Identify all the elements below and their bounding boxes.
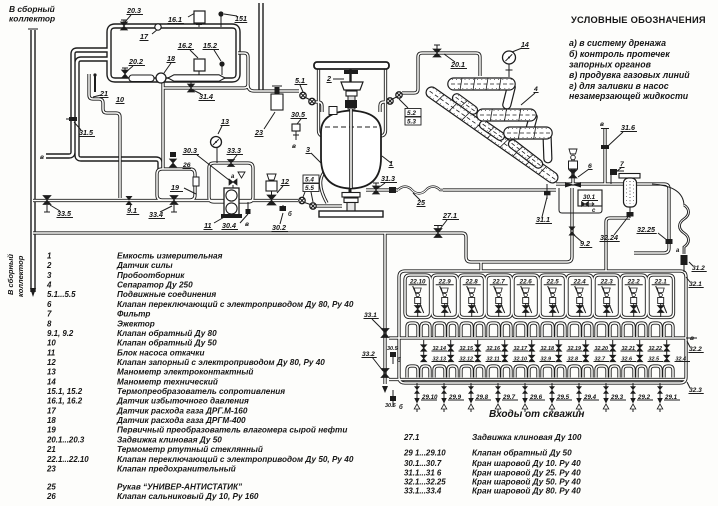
svg-text:в: в — [40, 154, 44, 161]
svg-text:30.2: 30.2 — [272, 223, 286, 232]
svg-text:29.7: 29.7 — [502, 394, 516, 401]
svg-text:5.1...5.5: 5.1...5.5 — [47, 290, 76, 299]
svg-text:16.1: 16.1 — [168, 15, 182, 24]
svg-text:32.25: 32.25 — [637, 225, 656, 234]
svg-text:32.17: 32.17 — [514, 346, 528, 352]
svg-text:32.6: 32.6 — [622, 357, 633, 363]
svg-text:30.6: 30.6 — [385, 403, 397, 409]
svg-text:32.12: 32.12 — [460, 357, 474, 363]
svg-text:12: 12 — [47, 358, 56, 367]
svg-text:30.5: 30.5 — [291, 110, 306, 119]
svg-text:32.20: 32.20 — [595, 346, 609, 352]
svg-text:Клапан запорный с электроприво: Клапан запорный с электроприводом Ду 80,… — [117, 358, 325, 367]
svg-text:б: б — [399, 404, 403, 411]
svg-text:Сепаратор Ду 250: Сепаратор Ду 250 — [117, 281, 193, 290]
svg-text:29.10: 29.10 — [421, 394, 438, 401]
svg-text:Кран шаровой Ду 50. Ру 40: Кран шаровой Ду 50. Ру 40 — [472, 478, 581, 487]
svg-text:23: 23 — [254, 128, 263, 137]
svg-text:30.5: 30.5 — [387, 346, 399, 352]
svg-text:4: 4 — [46, 281, 52, 290]
svg-text:31.1: 31.1 — [536, 215, 550, 224]
svg-text:Клапан переключающий с электро: Клапан переключающий с электроприводом Д… — [117, 300, 354, 309]
svg-text:18: 18 — [167, 54, 175, 63]
svg-text:12: 12 — [281, 177, 289, 186]
svg-text:5.1: 5.1 — [295, 76, 305, 85]
svg-text:в: в — [245, 221, 249, 228]
svg-text:Датчик избыточного давления: Датчик избыточного давления — [116, 396, 249, 406]
svg-text:27.1: 27.1 — [442, 211, 457, 220]
svg-text:15.1, 15.2: 15.1, 15.2 — [47, 387, 83, 396]
svg-text:коллектор: коллектор — [9, 14, 55, 24]
svg-text:16.1, 16.2: 16.1, 16.2 — [47, 397, 83, 406]
svg-text:25: 25 — [46, 483, 56, 492]
svg-text:13: 13 — [221, 117, 229, 126]
svg-text:1: 1 — [47, 252, 51, 261]
svg-text:5.3: 5.3 — [407, 119, 416, 126]
svg-text:33.4: 33.4 — [149, 210, 163, 219]
svg-text:29.4: 29.4 — [583, 394, 597, 401]
svg-text:32.18: 32.18 — [541, 346, 555, 352]
svg-text:22.4: 22.4 — [573, 279, 587, 286]
svg-text:Клапан предохранительный: Клапан предохранительный — [117, 464, 236, 473]
svg-text:14: 14 — [521, 42, 529, 49]
svg-text:7: 7 — [47, 310, 52, 319]
svg-text:Первичный преобразователь влаг: Первичный преобразователь влагомера сыро… — [117, 425, 347, 435]
svg-text:26: 26 — [182, 162, 191, 169]
svg-text:9.1, 9.2: 9.1, 9.2 — [47, 329, 74, 338]
svg-text:Задвижка клиновая Ду 100: Задвижка клиновая Ду 100 — [472, 433, 582, 442]
svg-text:32.4: 32.4 — [676, 357, 687, 363]
svg-text:31.4: 31.4 — [199, 92, 213, 101]
svg-text:6: 6 — [47, 300, 52, 309]
svg-text:Термопреобразователь сопротивл: Термопреобразователь сопротивления — [117, 386, 285, 396]
svg-text:22.8: 22.8 — [465, 279, 479, 286]
svg-text:4: 4 — [533, 86, 538, 93]
svg-text:21: 21 — [99, 89, 108, 98]
svg-text:29.9: 29.9 — [448, 394, 462, 401]
svg-text:3: 3 — [47, 271, 52, 280]
svg-text:17: 17 — [47, 406, 56, 415]
svg-text:В сборный: В сборный — [9, 4, 55, 14]
svg-text:27.1: 27.1 — [403, 433, 419, 442]
svg-text:В сборный: В сборный — [6, 254, 15, 295]
svg-text:5.4: 5.4 — [305, 177, 314, 184]
svg-text:32.21: 32.21 — [622, 346, 636, 352]
svg-text:32.3: 32.3 — [689, 387, 702, 394]
svg-text:22.1...22.10: 22.1...22.10 — [46, 455, 89, 464]
svg-text:20.3: 20.3 — [126, 6, 141, 15]
svg-text:32.10: 32.10 — [514, 357, 528, 363]
svg-text:32.1...32.25: 32.1...32.25 — [404, 478, 446, 487]
svg-text:11: 11 — [204, 221, 211, 230]
svg-text:Клапан сальниковый Ду 10, Ру 1: Клапан сальниковый Ду 10, Ру 160 — [117, 492, 259, 501]
svg-text:32.15: 32.15 — [460, 346, 474, 352]
svg-text:Задвижка клиновая Ду 50: Задвижка клиновая Ду 50 — [117, 435, 222, 444]
svg-text:14: 14 — [47, 377, 56, 386]
svg-text:32.9: 32.9 — [541, 357, 552, 363]
svg-text:32.1: 32.1 — [689, 281, 702, 288]
svg-text:22.3: 22.3 — [600, 279, 614, 286]
svg-text:32.16: 32.16 — [487, 346, 501, 352]
svg-text:УСЛОВНЫЕ ОБОЗНАЧЕНИЯ: УСЛОВНЫЕ ОБОЗНАЧЕНИЯ — [571, 15, 706, 25]
svg-text:Подвижные соединения: Подвижные соединения — [117, 290, 216, 299]
svg-text:Пробоотборник: Пробоотборник — [117, 270, 185, 280]
svg-text:Клапан обратный Ду 80: Клапан обратный Ду 80 — [117, 328, 217, 338]
svg-text:Кран шаровой Ду 80. Ру 40: Кран шаровой Ду 80. Ру 40 — [472, 487, 581, 496]
svg-text:151: 151 — [235, 14, 247, 23]
svg-text:Клапан обратный Ду 50: Клапан обратный Ду 50 — [117, 338, 217, 348]
svg-text:31.2: 31.2 — [692, 265, 705, 272]
svg-text:3: 3 — [306, 145, 310, 154]
svg-text:10: 10 — [47, 339, 56, 348]
svg-text:23: 23 — [46, 464, 56, 473]
svg-text:20.2: 20.2 — [128, 57, 143, 66]
svg-text:32.22: 32.22 — [649, 346, 663, 352]
svg-text:Термометр ртутный стеклянный: Термометр ртутный стеклянный — [117, 445, 263, 454]
svg-text:22.2: 22.2 — [627, 279, 641, 286]
svg-text:31.5: 31.5 — [79, 128, 94, 137]
svg-text:33.1: 33.1 — [364, 312, 377, 319]
svg-text:11: 11 — [47, 348, 55, 357]
svg-text:Кран шаровой Ду 10. Ру 40: Кран шаровой Ду 10. Ру 40 — [472, 459, 581, 468]
svg-text:32.13: 32.13 — [433, 357, 447, 363]
svg-text:Рукав “УНИВЕР-АНТИСТАТИК”: Рукав “УНИВЕР-АНТИСТАТИК” — [117, 483, 243, 492]
svg-text:29.8: 29.8 — [475, 394, 489, 401]
svg-text:31.6: 31.6 — [621, 123, 636, 132]
svg-text:30.1: 30.1 — [583, 194, 596, 201]
svg-text:32.14: 32.14 — [433, 346, 447, 352]
svg-text:22.7: 22.7 — [492, 279, 506, 286]
svg-text:Манометр электроконтактный: Манометр электроконтактный — [117, 368, 253, 377]
svg-text:Клапан переключающий с электро: Клапан переключающий с электроприводом Д… — [117, 455, 354, 464]
svg-text:г) для заливки в насос: г) для заливки в насос — [569, 81, 669, 91]
svg-text:в: в — [690, 335, 694, 342]
svg-text:б: б — [288, 211, 292, 218]
svg-text:19: 19 — [47, 426, 56, 435]
svg-text:Датчик силы: Датчик силы — [116, 261, 173, 270]
svg-text:5.5: 5.5 — [305, 185, 314, 192]
svg-text:б) контроль протечек: б) контроль протечек — [569, 49, 670, 59]
svg-text:29.3: 29.3 — [610, 394, 624, 401]
svg-text:33.2: 33.2 — [362, 351, 375, 358]
svg-text:б: б — [397, 357, 401, 364]
svg-text:15.2: 15.2 — [203, 41, 217, 50]
svg-text:Эжектор: Эжектор — [117, 319, 155, 328]
svg-text:29.5: 29.5 — [556, 394, 570, 401]
svg-text:22.9: 22.9 — [438, 279, 452, 286]
svg-text:коллектор: коллектор — [16, 255, 25, 297]
svg-text:а) в систему дренажа: а) в систему дренажа — [569, 38, 666, 48]
svg-text:20.1...20.3: 20.1...20.3 — [46, 435, 85, 444]
svg-text:22.10: 22.10 — [409, 279, 426, 286]
svg-text:Фильтр: Фильтр — [117, 310, 150, 319]
svg-text:в: в — [600, 121, 604, 128]
svg-text:1: 1 — [389, 159, 393, 168]
svg-text:22.1: 22.1 — [654, 279, 668, 286]
svg-text:Кран шаровой Ду 25. Ру 40: Кран шаровой Ду 25. Ру 40 — [472, 469, 581, 478]
svg-text:19: 19 — [171, 183, 179, 192]
svg-text:в: в — [292, 143, 296, 150]
svg-text:33.1...33.4: 33.1...33.4 — [404, 487, 442, 496]
svg-text:9.2: 9.2 — [580, 239, 590, 248]
svg-text:Входы от скважин: Входы от скважин — [489, 409, 584, 420]
svg-text:29 1...29.10: 29 1...29.10 — [403, 449, 446, 458]
svg-text:32.2: 32.2 — [689, 346, 702, 353]
svg-text:30.3: 30.3 — [183, 146, 197, 155]
svg-text:Блок насоса откачки: Блок насоса откачки — [117, 348, 204, 357]
svg-text:26: 26 — [46, 492, 56, 501]
svg-text:32.11: 32.11 — [487, 357, 500, 363]
svg-text:18: 18 — [47, 416, 56, 425]
svg-text:31.1...31 6: 31.1...31 6 — [404, 469, 442, 478]
svg-text:31.3: 31.3 — [381, 174, 395, 183]
svg-text:32.7: 32.7 — [595, 357, 606, 363]
svg-text:запорных органов: запорных органов — [569, 60, 652, 70]
svg-text:Емкость измерительная: Емкость измерительная — [117, 252, 223, 261]
svg-text:22.5: 22.5 — [546, 279, 560, 286]
svg-text:8: 8 — [47, 319, 52, 328]
svg-text:16.2: 16.2 — [178, 41, 192, 50]
svg-text:20.1: 20.1 — [450, 60, 465, 69]
svg-text:17: 17 — [140, 32, 149, 41]
svg-text:2: 2 — [46, 261, 52, 270]
svg-text:незамерзающей жидкости: незамерзающей жидкости — [569, 91, 689, 101]
svg-text:Датчик расхода газа ДРГ.М-160: Датчик расхода газа ДРГ.М-160 — [116, 406, 248, 415]
svg-text:30.4: 30.4 — [222, 221, 236, 230]
svg-text:33.5: 33.5 — [57, 209, 72, 218]
svg-text:в) продувка газовых линий: в) продувка газовых линий — [569, 70, 690, 80]
svg-text:13: 13 — [47, 368, 56, 377]
svg-text:32.19: 32.19 — [568, 346, 582, 352]
svg-text:30.1...30.7: 30.1...30.7 — [404, 459, 442, 468]
svg-text:10: 10 — [116, 95, 124, 104]
svg-text:Клапан обратный Ду 50: Клапан обратный Ду 50 — [472, 448, 572, 458]
svg-text:2: 2 — [326, 74, 331, 83]
svg-text:22.6: 22.6 — [519, 279, 533, 286]
svg-text:33.3: 33.3 — [227, 146, 241, 155]
svg-text:32.8: 32.8 — [568, 357, 579, 363]
svg-text:25: 25 — [416, 198, 426, 207]
svg-text:9.1: 9.1 — [127, 206, 137, 215]
svg-text:29.2: 29.2 — [637, 394, 651, 401]
svg-text:6: 6 — [588, 163, 592, 170]
svg-text:Датчик расхода газа ДРГМ-400: Датчик расхода газа ДРГМ-400 — [116, 416, 246, 425]
svg-text:21: 21 — [46, 445, 56, 454]
svg-text:Манометр технический: Манометр технический — [117, 377, 218, 386]
svg-text:29.1: 29.1 — [664, 394, 678, 401]
svg-text:5.2: 5.2 — [407, 110, 416, 117]
svg-text:29.6: 29.6 — [529, 394, 543, 401]
svg-text:32.5: 32.5 — [649, 357, 660, 363]
svg-text:32.24: 32.24 — [600, 233, 618, 242]
